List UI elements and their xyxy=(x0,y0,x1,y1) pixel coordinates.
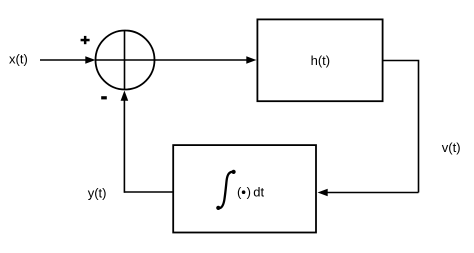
wire input arrow into summer xyxy=(40,56,96,64)
svg-text:): ) xyxy=(247,184,251,199)
integral sign xyxy=(216,170,236,210)
wire summer to h(t) with arrow xyxy=(155,56,257,64)
label (.) dt xyxy=(237,184,265,199)
svg-text:dt: dt xyxy=(253,184,264,199)
plus sign xyxy=(81,36,90,44)
svg-text:y(t): y(t) xyxy=(88,186,107,201)
svg-text:(: ( xyxy=(237,184,242,199)
summing junction circle xyxy=(96,31,155,90)
svg-text:v(t): v(t) xyxy=(442,140,461,155)
wire integrator output left xyxy=(124,191,173,193)
wire down into integrator with left arrow xyxy=(318,189,419,197)
svg-text:x(t): x(t) xyxy=(9,52,28,67)
svg-text:h(t): h(t) xyxy=(311,53,331,68)
minus sign xyxy=(101,96,107,99)
wire feedback up into summer with arrow xyxy=(121,91,129,193)
wire h(t) output to right and down xyxy=(384,61,419,193)
summer horizontal diameter xyxy=(96,59,155,61)
block integrator xyxy=(173,145,316,232)
block h(t) xyxy=(257,19,382,101)
summer vertical diameter xyxy=(124,31,126,90)
